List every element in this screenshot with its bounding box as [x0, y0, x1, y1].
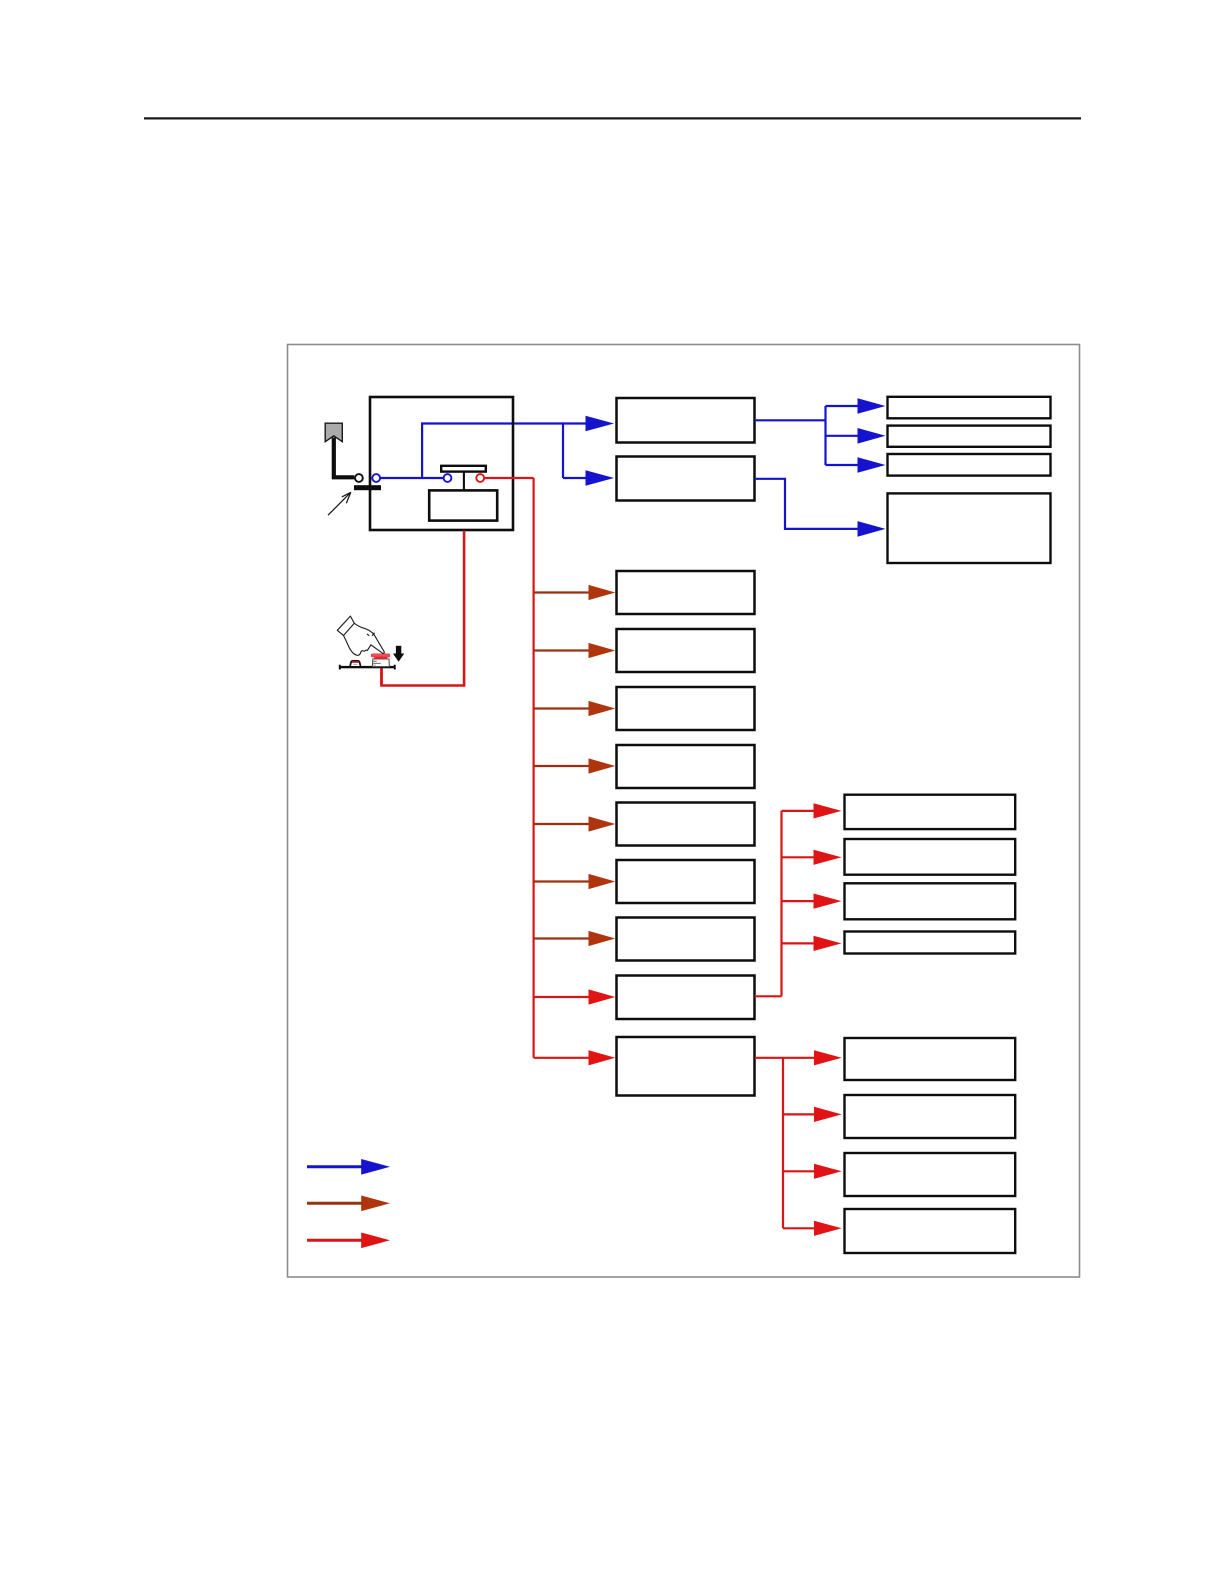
blue arrow into thin box 3 [826, 457, 886, 473]
pointer arrow [328, 492, 351, 515]
armature stem [463, 472, 465, 491]
blue arrow into box1 [563, 416, 614, 432]
red arrow into group1 box3 [782, 894, 842, 909]
brown arrow to box A [534, 585, 616, 600]
box G [617, 918, 755, 961]
red arrow into group1 box4 [782, 936, 842, 951]
red arrow into group1 box1 [782, 803, 842, 818]
legend blue arrow [307, 1159, 390, 1175]
small bump on base [350, 661, 360, 666]
box2 second-level blue [617, 457, 755, 501]
pole terminal circle [355, 474, 363, 482]
group2 box2 [845, 1095, 1016, 1138]
relay armature plate [441, 466, 486, 472]
wire red box I to right trunk 2 and arrow into group2 box1 [755, 1050, 842, 1065]
wire blue box2 to big box [755, 479, 859, 529]
box I [617, 1037, 755, 1096]
red main trunk vertical [532, 478, 534, 1058]
group1 box1 [845, 795, 1016, 829]
flag symbol [325, 423, 342, 442]
box D [617, 745, 755, 788]
pressing hand [337, 616, 384, 655]
group2 box3 [845, 1153, 1016, 1196]
brown arrow to box B [534, 643, 616, 658]
thin box 1 [888, 397, 1051, 419]
box H [617, 976, 755, 1020]
legend red arrow [307, 1233, 390, 1249]
input contact bar [354, 485, 381, 490]
wire red from coil to push button [382, 531, 465, 686]
group2 box4 [845, 1209, 1016, 1253]
wire blue from terminal to junction [379, 477, 444, 479]
relay coil box [429, 490, 497, 520]
red right trunk 1 [780, 811, 782, 996]
blue arrow into box2 [563, 470, 614, 486]
legend brown arrow [307, 1196, 390, 1212]
blue input terminal [372, 474, 380, 482]
push button baseline [339, 665, 396, 670]
group1 box3 [845, 883, 1016, 919]
wire blue horizontal exiting box [421, 422, 563, 424]
wire red from red terminal to trunk [484, 477, 534, 479]
blue right trunk [824, 406, 826, 465]
red arrow to box I [534, 1050, 616, 1065]
red arrow into group2 box4 [783, 1221, 842, 1236]
box1 first-level blue [617, 398, 755, 443]
blue contact terminal [444, 474, 452, 482]
box B [617, 629, 755, 672]
group1 box2 [845, 839, 1016, 875]
box E [617, 803, 755, 846]
brown arrow to box D [534, 758, 616, 773]
box A [617, 571, 755, 614]
thin box 3 [888, 454, 1051, 476]
blue arrow into thin box 2 [826, 428, 886, 444]
group1 box4 thin [845, 932, 1016, 954]
red arrow into group1 box2 [782, 850, 842, 865]
control unit outer box [370, 397, 513, 530]
page header rule [144, 117, 1081, 119]
group2 box1 [845, 1038, 1016, 1080]
push button red cap [371, 654, 390, 659]
big blue target box [888, 493, 1051, 563]
box C [617, 687, 755, 730]
blue arrow into big box [858, 521, 886, 537]
flag pole [334, 438, 355, 478]
diagram frame [288, 345, 1080, 1278]
wire blue box1 to right trunk [755, 419, 826, 421]
red right trunk 2 [782, 1058, 784, 1229]
blue arrow into thin box 1 [826, 398, 886, 414]
wire red box H to right trunk 1 [755, 995, 782, 997]
box F [617, 860, 755, 903]
brown arrow to box F [534, 874, 616, 889]
wire blue riser inside box [421, 424, 423, 479]
brown arrow to box C [534, 701, 616, 716]
wire blue split down [562, 422, 564, 478]
red arrow into group2 box3 [783, 1164, 842, 1179]
black press-down arrow [393, 646, 404, 662]
push button body [372, 659, 389, 667]
brown arrow to box G [534, 931, 616, 946]
red arrow to box H [534, 989, 616, 1004]
red contact terminal [476, 474, 484, 482]
thin box 2 [888, 426, 1051, 447]
red arrow into group2 box2 [783, 1107, 842, 1122]
red wire from button to coil junction [380, 669, 383, 686]
brown arrow to box E [534, 816, 616, 831]
